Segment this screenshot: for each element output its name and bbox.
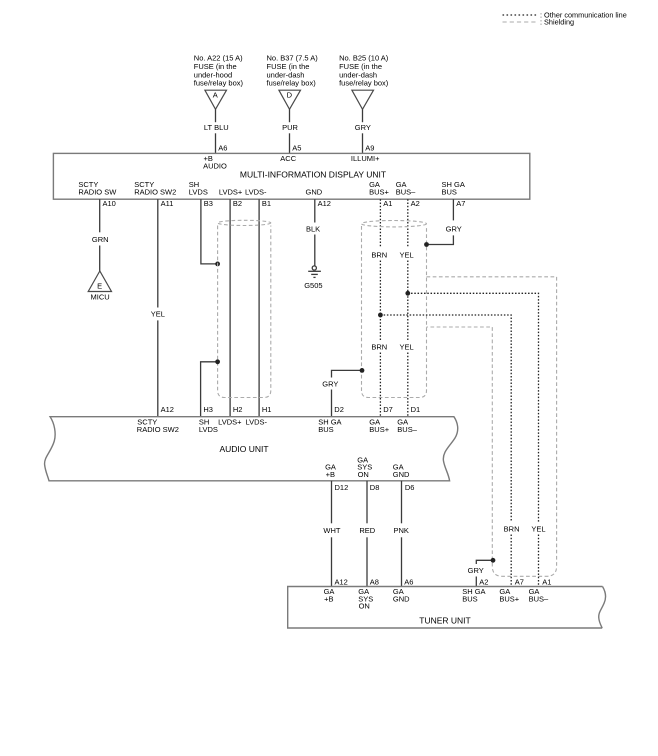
- svg-text:RADIO SW2: RADIO SW2: [134, 188, 176, 197]
- wire WHT audio D12 to tuner A12: [331, 481, 333, 524]
- svg-text:A2: A2: [411, 199, 420, 208]
- svg-text:BUS–: BUS–: [529, 594, 549, 603]
- wire GRY fuse F3 to MID pin A9: [362, 109, 364, 122]
- svg-text:: Shielding: : Shielding: [540, 18, 574, 27]
- wire SH LVDS drain to audio H3: [201, 362, 218, 417]
- wire YEL MID A11 to audio A12: [157, 199, 159, 307]
- svg-text:MULTI-INFORMATION DISPLAY UNIT: MULTI-INFORMATION DISPLAY UNIT: [240, 170, 386, 180]
- svg-text:RADIO SW: RADIO SW: [78, 188, 117, 197]
- svg-text:B1: B1: [262, 199, 271, 208]
- wire GRY MID A7 shield drain: [452, 199, 454, 220]
- svg-text:D7: D7: [383, 405, 393, 414]
- legend dotted sample: other communication line: [503, 14, 539, 16]
- svg-text:G505: G505: [304, 281, 322, 290]
- tuner unit box: [288, 587, 606, 629]
- svg-text:B3: B3: [204, 199, 213, 208]
- svg-text:ON: ON: [359, 602, 370, 611]
- wire BRN dotted MID A1 to audio D7: [379, 199, 381, 248]
- svg-text:MICU: MICU: [91, 292, 110, 301]
- svg-text:GRN: GRN: [92, 235, 109, 244]
- svg-text:RADIO SW2: RADIO SW2: [137, 425, 179, 434]
- svg-text:LVDS: LVDS: [189, 188, 208, 197]
- svg-text:GND: GND: [306, 188, 323, 197]
- wire LVDS+ B2 to H2: [229, 199, 231, 417]
- svg-text:YEL: YEL: [531, 525, 545, 534]
- svg-text:A5: A5: [292, 144, 301, 153]
- svg-text:D12: D12: [335, 483, 349, 492]
- svg-text:A8: A8: [370, 578, 379, 587]
- svg-text:LVDS-: LVDS-: [246, 418, 268, 427]
- svg-text:B2: B2: [233, 199, 242, 208]
- wire RED audio D8 to tuner A8: [366, 481, 368, 524]
- svg-text:LVDS-: LVDS-: [245, 188, 267, 197]
- svg-text:D8: D8: [370, 483, 380, 492]
- svg-text:GRY: GRY: [322, 380, 338, 389]
- junction BRN branch: [378, 313, 383, 318]
- wire BLK MID A12 to G505: [314, 199, 316, 222]
- svg-text:LVDS+: LVDS+: [219, 188, 243, 197]
- svg-text:ILLUMI+: ILLUMI+: [351, 154, 380, 163]
- svg-text:GRY: GRY: [468, 566, 484, 575]
- svg-text:A7: A7: [515, 578, 524, 587]
- svg-text:BLK: BLK: [306, 225, 320, 234]
- svg-text:A12: A12: [318, 199, 331, 208]
- svg-text:LT BLU: LT BLU: [204, 123, 229, 132]
- svg-text:GRY: GRY: [355, 123, 371, 132]
- junction tuner shield: [491, 558, 496, 563]
- svg-text:BRN: BRN: [371, 343, 387, 352]
- svg-text:A6: A6: [404, 578, 413, 587]
- connector E MICU: [88, 271, 111, 292]
- svg-text:ON: ON: [358, 470, 369, 479]
- svg-text:WHT: WHT: [323, 526, 340, 535]
- svg-text:BUS: BUS: [318, 425, 333, 434]
- svg-text:A1: A1: [383, 199, 392, 208]
- svg-text:BUS–: BUS–: [397, 425, 417, 434]
- svg-text:A12: A12: [335, 578, 348, 587]
- svg-text:YEL: YEL: [400, 250, 414, 259]
- svg-text:BUS: BUS: [442, 188, 457, 197]
- svg-text:A: A: [213, 91, 218, 100]
- wire SH LVDS B3 drain: [201, 199, 218, 264]
- fuse F1 symbol A: [205, 90, 227, 109]
- svg-text:BUS+: BUS+: [499, 594, 519, 603]
- wire LT BLU fuse F1 to MID pin A6: [215, 109, 217, 122]
- shield run to tuner: [427, 277, 557, 577]
- fuse F3 symbol: [352, 90, 374, 109]
- svg-text:fuse/relay box): fuse/relay box): [267, 79, 317, 88]
- svg-text:BRN: BRN: [504, 525, 520, 534]
- svg-text:AUDIO UNIT: AUDIO UNIT: [219, 444, 268, 454]
- svg-text:H1: H1: [262, 405, 272, 414]
- svg-text:GND: GND: [393, 594, 410, 603]
- svg-text:A10: A10: [103, 199, 116, 208]
- svg-text:LVDS: LVDS: [199, 425, 218, 434]
- svg-text:+B: +B: [324, 594, 333, 603]
- svg-text:BUS–: BUS–: [396, 188, 416, 197]
- junction H3 shield: [215, 359, 220, 364]
- wire YEL dotted branch to tuner A1: [408, 293, 539, 522]
- svg-text:GRY: GRY: [446, 224, 462, 233]
- audio unit box: [45, 417, 458, 481]
- svg-text:BUS+: BUS+: [369, 425, 389, 434]
- svg-text:fuse/relay box): fuse/relay box): [194, 79, 244, 88]
- wire GRY audio D2 shield drain: [332, 370, 363, 377]
- svg-text:LVDS+: LVDS+: [218, 418, 242, 427]
- svg-text:ACC: ACC: [280, 154, 296, 163]
- shield around LVDS pair: [218, 226, 271, 398]
- wire GRN MID A10 to MICU: [99, 199, 101, 232]
- svg-text:A12: A12: [161, 405, 174, 414]
- svg-text:GND: GND: [393, 470, 410, 479]
- svg-text:A11: A11: [161, 199, 174, 208]
- legend dashed sample: shielding: [503, 21, 539, 23]
- svg-text:+B: +B: [326, 470, 335, 479]
- svg-text:E: E: [97, 282, 102, 291]
- svg-text:H3: H3: [203, 405, 213, 414]
- fuse F2 symbol D: [279, 90, 301, 109]
- svg-text:fuse/relay box): fuse/relay box): [339, 79, 389, 88]
- svg-text:BRN: BRN: [371, 250, 387, 259]
- svg-text:D2: D2: [334, 405, 344, 414]
- svg-text:BUS+: BUS+: [369, 188, 389, 197]
- svg-text:A6: A6: [218, 144, 227, 153]
- svg-text:D: D: [287, 91, 293, 100]
- wire PUR fuse F2 to MID pin A5: [289, 109, 291, 122]
- junction YEL branch: [405, 291, 410, 296]
- svg-text:YEL: YEL: [400, 343, 414, 352]
- multi-information display unit box: [53, 153, 529, 199]
- svg-text:PNK: PNK: [393, 526, 408, 535]
- svg-text:H2: H2: [233, 405, 243, 414]
- svg-text:D1: D1: [411, 405, 421, 414]
- shield around GA BUS pair upper: [362, 226, 427, 398]
- svg-text:PUR: PUR: [282, 123, 298, 132]
- svg-text:RED: RED: [359, 526, 375, 535]
- junction A7 shield: [424, 242, 429, 247]
- wire BRN dotted branch to tuner A7: [380, 315, 511, 522]
- wire LVDS- B1 to H1: [258, 199, 260, 417]
- wire PNK audio D6 to tuner A6: [401, 481, 403, 524]
- svg-text:A2: A2: [479, 578, 488, 587]
- wire YEL dotted MID A2 to audio D1: [407, 199, 409, 248]
- junction B3 shield: [215, 262, 220, 267]
- svg-text:AUDIO: AUDIO: [203, 161, 227, 170]
- junction D2 shield: [360, 368, 365, 373]
- svg-text:BUS: BUS: [462, 594, 477, 603]
- wire GRY tuner A2 shield drain: [476, 560, 493, 564]
- svg-text:D6: D6: [405, 483, 415, 492]
- svg-text:A7: A7: [456, 199, 465, 208]
- svg-text:YEL: YEL: [151, 310, 165, 319]
- ground G505: [312, 266, 316, 270]
- svg-text:A1: A1: [542, 578, 551, 587]
- svg-text:A9: A9: [365, 144, 374, 153]
- svg-text:TUNER UNIT: TUNER UNIT: [419, 615, 470, 625]
